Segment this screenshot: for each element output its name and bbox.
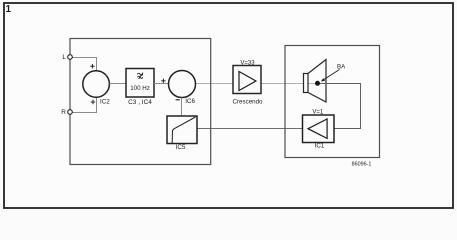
wire L input to IC2 + input bbox=[72, 58, 97, 71]
svg-text:C3 , IC4: C3 , IC4 bbox=[128, 99, 152, 106]
svg-text:R: R bbox=[61, 109, 66, 116]
svg-text:86096-1: 86096-1 bbox=[352, 161, 372, 167]
buffer amplifier IC1 (V=1) bbox=[303, 110, 335, 150]
wire loudspeaker to IC1 input (sense loop) bbox=[318, 84, 361, 129]
rectifier/shaper block IC5 bbox=[167, 116, 197, 151]
wire IC6 output to loudspeaker via Crescendo (long light wire at y=84) bbox=[196, 83, 318, 85]
plus sign at IC6 input bbox=[161, 79, 165, 83]
svg-text:V=1: V=1 bbox=[312, 110, 324, 116]
low-pass filter block C3, IC4 (100 Hz) bbox=[126, 69, 154, 107]
svg-text:L: L bbox=[62, 54, 66, 61]
summing amplifier IC2 bbox=[83, 71, 110, 106]
wire filter output to IC6 + input bbox=[154, 83, 169, 85]
svg-text:IC1: IC1 bbox=[315, 143, 325, 150]
minus sign at IC6 feedback input bbox=[176, 99, 180, 101]
svg-text:V=33: V=33 bbox=[240, 60, 255, 66]
node: sensor tap on voice coil bbox=[315, 81, 320, 86]
svg-text:100 Hz: 100 Hz bbox=[130, 85, 150, 92]
svg-text:Crescendo: Crescendo bbox=[233, 98, 263, 105]
input terminal L bbox=[62, 54, 72, 61]
wire IC1 output to IC5 (long feedback wire at y=128) bbox=[197, 128, 304, 130]
plus sign at IC2 lower input bbox=[91, 100, 95, 104]
power amplifier block Crescendo (V=33) bbox=[233, 60, 263, 105]
svg-text:IC5: IC5 bbox=[176, 144, 186, 151]
wire IC6 to IC5 (feedback branch) bbox=[181, 98, 183, 117]
enclosure box: mixer/filter unit (left) bbox=[70, 39, 211, 165]
subtracting amplifier IC6 bbox=[169, 71, 196, 105]
plus sign at IC2 upper input bbox=[90, 64, 94, 68]
svg-text:BA: BA bbox=[337, 64, 346, 71]
loudspeaker with motional sensor bbox=[304, 60, 327, 103]
input terminal R bbox=[61, 109, 72, 116]
wire IC2 output to 100 Hz filter bbox=[109, 83, 126, 85]
svg-text:IC6: IC6 bbox=[185, 98, 195, 105]
wire R input to IC2 + input bbox=[72, 97, 97, 112]
svg-text:IC2: IC2 bbox=[100, 99, 110, 106]
enclosure box: active loudspeaker unit (right) bbox=[285, 46, 380, 158]
svg-text:1: 1 bbox=[6, 4, 12, 15]
label BA with pointer arrow bbox=[321, 64, 346, 82]
